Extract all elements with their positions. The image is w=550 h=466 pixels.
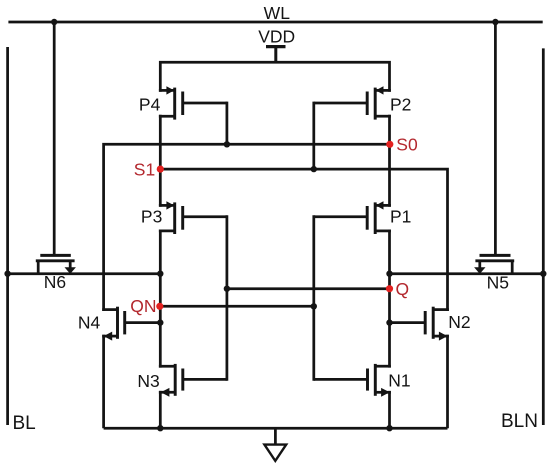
transistor N5 xyxy=(474,255,514,274)
node QN line junction xyxy=(311,303,317,309)
svg-text:QN: QN xyxy=(130,296,156,316)
svg-text:BL: BL xyxy=(13,413,36,434)
node N2 gate junction xyxy=(386,319,392,325)
wire left trunk P3-QN-N3 xyxy=(159,230,162,368)
svg-text:N3: N3 xyxy=(137,371,159,391)
svg-text:P1: P1 xyxy=(390,207,411,227)
wire cross-couple P2 gate to S1 xyxy=(312,102,315,170)
wire BL row to QN column xyxy=(8,272,161,275)
wire BL xyxy=(6,47,9,425)
wire cross-couple P1 gate to QN to N1 gate xyxy=(312,215,315,380)
wire right trunk P2-S0-P1 xyxy=(388,115,391,207)
wire BLN row to Q column xyxy=(390,272,544,275)
wire node Q line xyxy=(227,287,390,290)
svg-text:VDD: VDD xyxy=(258,26,295,46)
wire cross-couple P4 gate to S0 xyxy=(226,102,229,145)
wire VDD rail xyxy=(160,62,389,92)
svg-text:S0: S0 xyxy=(396,134,418,154)
node BLN row junction xyxy=(540,271,546,277)
node Q column row junction xyxy=(386,271,392,277)
svg-text:P2: P2 xyxy=(390,95,411,115)
wire N6 gate riser xyxy=(53,22,56,255)
wire BLN xyxy=(542,48,545,425)
svg-text:BLN: BLN xyxy=(501,411,538,432)
transistor N1 xyxy=(314,364,391,397)
wire left trunk N3 source drop xyxy=(159,391,162,428)
power VDD xyxy=(266,47,286,63)
wire N2 source drop xyxy=(446,335,449,429)
transistor P2 xyxy=(314,86,391,119)
wire cross-couple P3 gate to Q to N3 gate xyxy=(226,215,229,380)
node Q xyxy=(386,285,393,292)
node P4 gate S0 junction xyxy=(224,141,230,147)
node WL-N5 junction xyxy=(492,19,498,25)
transistor N6 xyxy=(36,255,76,274)
svg-text:N6: N6 xyxy=(44,272,66,292)
wire node QN line xyxy=(160,305,313,308)
wire right trunk N1 source drop xyxy=(388,391,391,428)
wire N5 gate riser xyxy=(494,22,497,255)
wire ground rail xyxy=(104,427,448,430)
node BL row junction xyxy=(4,271,10,277)
transistor N2 xyxy=(390,307,449,341)
node QN xyxy=(156,303,163,310)
svg-text:P3: P3 xyxy=(141,207,162,227)
svg-text:WL: WL xyxy=(264,3,291,23)
svg-text:P4: P4 xyxy=(139,95,161,115)
wire left trunk P4-S1-P3 xyxy=(159,115,162,207)
wire node S0 line xyxy=(104,144,390,311)
node ground rail right junction xyxy=(386,425,392,431)
transistor P3 xyxy=(159,201,227,234)
wire right trunk P1-Q-N1 xyxy=(388,230,391,368)
node ground rail left junction xyxy=(157,425,163,431)
transistor P4 xyxy=(159,86,227,119)
ground xyxy=(264,428,286,461)
svg-text:Q: Q xyxy=(396,279,410,299)
svg-text:N5: N5 xyxy=(487,273,509,293)
node S1 xyxy=(157,166,164,173)
svg-text:N4: N4 xyxy=(78,313,101,333)
node QN column row junction xyxy=(157,271,163,277)
node WL-N6 junction xyxy=(51,19,57,25)
node N4 gate junction xyxy=(157,319,163,325)
node Q line junction xyxy=(224,286,230,292)
svg-text:N2: N2 xyxy=(448,312,470,332)
svg-text:N1: N1 xyxy=(388,371,410,391)
wire N4 source drop xyxy=(102,335,105,429)
transistor N3 xyxy=(159,364,227,397)
wire node S1 line xyxy=(160,169,447,311)
transistor P1 xyxy=(314,201,391,234)
wire WL xyxy=(8,21,542,24)
node S0 xyxy=(386,141,393,148)
svg-text:S1: S1 xyxy=(134,160,155,180)
node P2 gate S1 junction xyxy=(311,166,317,172)
transistor N4 xyxy=(102,307,160,341)
